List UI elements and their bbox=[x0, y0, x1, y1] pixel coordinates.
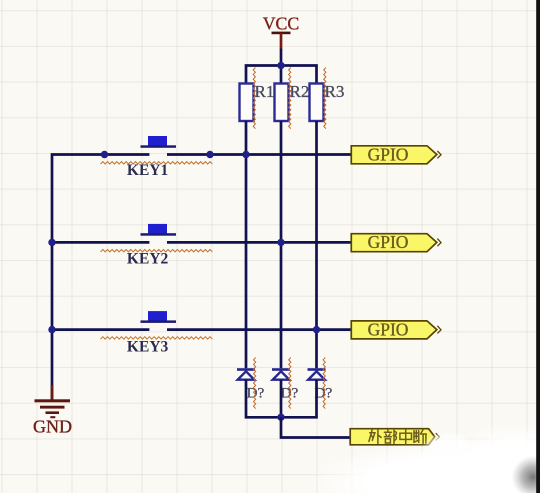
junction KEY2/R2 node bbox=[277, 239, 284, 246]
diode D3 bbox=[308, 368, 333, 401]
wire KEY2 row bbox=[52, 241, 352, 244]
error squiggle at KEY2 bbox=[101, 250, 213, 252]
junction KEY1 left pin bbox=[101, 151, 108, 158]
wire top bus bbox=[246, 66, 317, 84]
junction rail/KEY3 node bbox=[48, 326, 55, 333]
svg-text:KEY2: KEY2 bbox=[127, 250, 169, 267]
resistor R1 bbox=[240, 82, 275, 121]
svg-text:R1: R1 bbox=[255, 82, 275, 101]
svg-text:R2: R2 bbox=[290, 82, 310, 101]
junction diode bus node bbox=[277, 414, 284, 421]
port GPIO 2 bbox=[351, 232, 441, 252]
error squiggle at R1 bbox=[253, 68, 255, 129]
junction KEY1/R1 node bbox=[242, 151, 249, 158]
junction rail/KEY2 node bbox=[48, 239, 55, 246]
glyph 断 bbox=[414, 430, 426, 443]
resistor R3 bbox=[310, 82, 345, 121]
port GPIO 3 bbox=[351, 319, 441, 339]
wire diode bottom bus bbox=[246, 380, 317, 418]
wire KEY3 row bbox=[52, 328, 352, 331]
diode D2 bbox=[272, 368, 298, 401]
wire column R3 to diode D3 bbox=[315, 121, 318, 368]
error squiggle at D3 bbox=[323, 358, 325, 409]
pushbutton KEY2 bbox=[127, 224, 176, 267]
wire bus to interrupt port bbox=[281, 417, 351, 437]
glyph 部 bbox=[384, 430, 396, 443]
svg-text:GPIO: GPIO bbox=[368, 232, 409, 252]
wire column R2 to diode D2 bbox=[280, 121, 283, 368]
wire KEY1 row bbox=[105, 153, 352, 156]
junction KEY1 right pin bbox=[206, 151, 213, 158]
label 外部中断 (drawn strokes) bbox=[369, 430, 426, 444]
power symbol VCC bbox=[263, 14, 300, 49]
glyph 中 bbox=[400, 430, 412, 444]
resistor R2 bbox=[275, 82, 310, 121]
wire VCC stem to top bus bbox=[280, 49, 283, 66]
pushbutton KEY3 bbox=[127, 311, 176, 355]
svg-text:VCC: VCC bbox=[263, 14, 300, 34]
glyph 外 bbox=[369, 430, 381, 444]
error squiggle at KEY3 bbox=[101, 337, 213, 339]
watermark gray blob bbox=[512, 456, 540, 493]
error squiggle at R2 bbox=[289, 68, 291, 129]
svg-text:GND: GND bbox=[33, 417, 72, 437]
error squiggle at R3 bbox=[324, 68, 326, 129]
junction KEY3/R3 node bbox=[313, 326, 320, 333]
wire column R1 to diode D1 bbox=[245, 121, 248, 368]
error squiggle at D1 bbox=[254, 358, 256, 409]
svg-text:KEY3: KEY3 bbox=[127, 338, 169, 355]
diode D1 bbox=[237, 368, 264, 401]
pushbutton KEY1 bbox=[127, 136, 176, 179]
svg-text:GPIO: GPIO bbox=[368, 319, 409, 339]
watermark white blur bbox=[308, 442, 540, 493]
error squiggle at D2 bbox=[289, 358, 291, 409]
svg-text:R3: R3 bbox=[325, 82, 345, 101]
black right edge bar bbox=[536, 0, 540, 493]
wire left rail bbox=[52, 155, 105, 400]
error squiggle at KEY1 bbox=[101, 162, 213, 164]
ground symbol GND bbox=[33, 385, 72, 437]
port external interrupt bbox=[350, 429, 439, 445]
junction VCC node bbox=[277, 62, 284, 69]
port GPIO 1 bbox=[351, 144, 441, 164]
svg-text:GPIO: GPIO bbox=[368, 144, 409, 164]
